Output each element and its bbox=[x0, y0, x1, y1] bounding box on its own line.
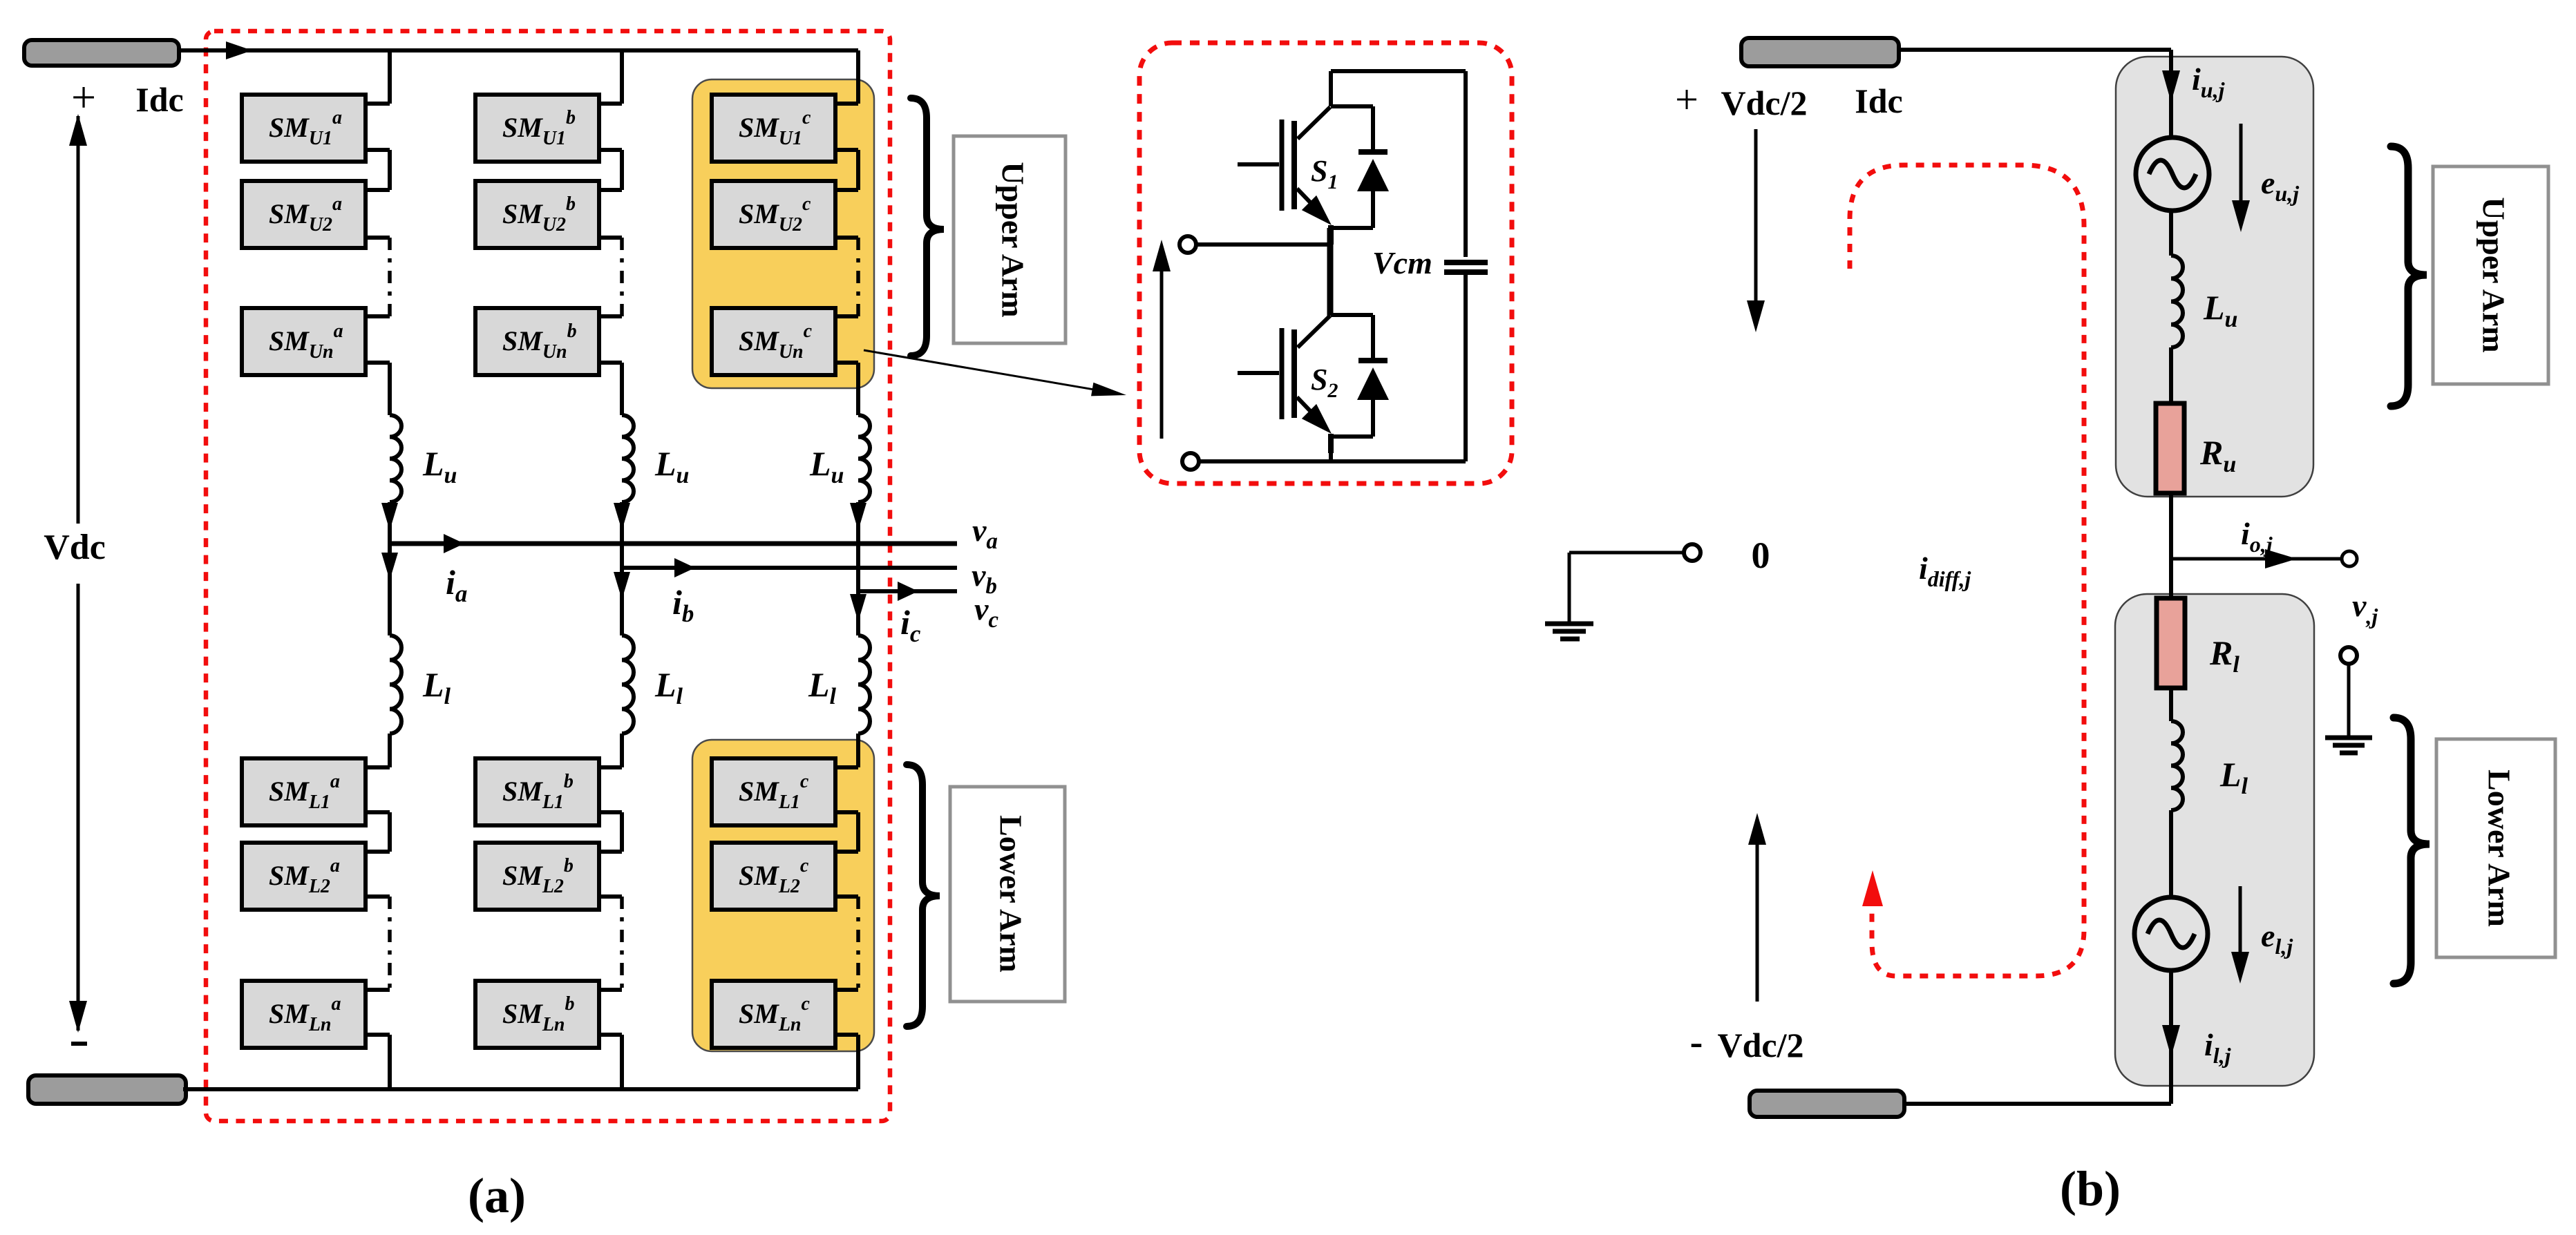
submodule SM_L1^a bbox=[242, 758, 366, 825]
i_u,j label bbox=[2192, 61, 2225, 102]
e_u,j arrow bbox=[2232, 124, 2250, 232]
phase c wire below AC node bbox=[850, 591, 866, 635]
inductor L_u phase a bbox=[390, 415, 401, 502]
submodule SM_U2^c bbox=[712, 181, 835, 248]
capacitor Vcm bbox=[1444, 71, 1488, 461]
svg-text:idiff,j: idiff,j bbox=[1919, 551, 1971, 591]
inductor L_l phase b bbox=[622, 635, 634, 734]
Vdc/2 up arrow bbox=[1748, 813, 1766, 1002]
submodule SM_U1^c bbox=[712, 95, 835, 162]
svg-text:Upper Arm: Upper Arm bbox=[2476, 197, 2511, 352]
e_l,j arrow bbox=[2231, 886, 2249, 984]
svg-text:Lower Arm: Lower Arm bbox=[993, 815, 1028, 973]
R_l label bbox=[2209, 633, 2239, 678]
svg-text:Lu: Lu bbox=[654, 444, 689, 488]
svg-text:Idc: Idc bbox=[135, 80, 183, 119]
Lower Arm label box (b) bbox=[2436, 739, 2555, 957]
svg-text:io,j: io,j bbox=[2241, 516, 2273, 557]
i_u,j arrow bbox=[2162, 70, 2180, 102]
inductor L_u phase b bbox=[622, 415, 634, 502]
submodule SM_Un^a bbox=[242, 308, 366, 375]
negative DC terminal bar (b) bbox=[1750, 1091, 1904, 1117]
phase a lower arm series wiring bbox=[366, 734, 390, 1089]
wire AC to L_u bbox=[2169, 211, 2173, 256]
submodule SM_Ln^c bbox=[712, 981, 835, 1048]
red dashed boundary of submodule detail inset bbox=[1139, 43, 1512, 484]
bottom wire (b) bbox=[1904, 1102, 2171, 1106]
ground node 0 bbox=[1545, 544, 1701, 639]
svg-text:S1: S1 bbox=[1311, 154, 1338, 193]
wire L_u to R_u bbox=[2169, 347, 2173, 403]
i_c label bbox=[900, 603, 921, 647]
plus sign label bbox=[71, 73, 96, 122]
i_diff,j circulating current loop (red dashed) bbox=[1850, 165, 2084, 976]
svg-text:Vdc/2: Vdc/2 bbox=[1718, 1026, 1804, 1064]
L_l label phase b bbox=[654, 665, 683, 709]
wire R_u to output node bbox=[2169, 493, 2173, 598]
bottom DC bus wire bbox=[183, 1087, 858, 1091]
plus Vdc/2 label bbox=[1675, 77, 1807, 122]
Vdc double arrow bbox=[69, 114, 87, 1033]
inductor L_l phase c bbox=[858, 635, 870, 734]
caption (b) bbox=[2060, 1161, 2121, 1216]
inset top wire bbox=[1331, 69, 1466, 73]
mid node wire between S1 and S2 bbox=[1327, 228, 1334, 316]
negative DC terminal bar bbox=[28, 1075, 186, 1104]
svg-text:ib: ib bbox=[672, 583, 694, 627]
top wire (b) bbox=[1899, 50, 2171, 137]
top DC bus wire bbox=[179, 41, 858, 59]
submodule SM_L2^b bbox=[475, 843, 599, 910]
upper arm brace phase c bbox=[911, 98, 944, 356]
svg-text:+: + bbox=[71, 73, 96, 122]
i_a label bbox=[446, 563, 467, 607]
0 label bbox=[1752, 535, 1770, 576]
phase b upper arm series wiring bbox=[599, 48, 622, 415]
svg-text:Vcm: Vcm bbox=[1372, 245, 1432, 280]
L_l label phase a bbox=[422, 665, 451, 709]
L_u label (b) bbox=[2203, 288, 2237, 332]
inductor L_l phase a bbox=[390, 635, 401, 734]
AC source e_l lower bbox=[2134, 897, 2208, 970]
inset reference arrow up bbox=[1153, 240, 1171, 439]
svg-text:Lu: Lu bbox=[422, 444, 457, 488]
Idc label bbox=[135, 80, 183, 119]
minus sign label bbox=[71, 1042, 87, 1046]
positive DC terminal bar bbox=[24, 40, 179, 66]
v_c label bbox=[974, 591, 998, 633]
S1 label bbox=[1311, 154, 1338, 193]
red dashed boundary box of three-phase MMC (a) bbox=[206, 31, 890, 1121]
L_u label phase b bbox=[654, 444, 689, 488]
phase a wire into AC node bbox=[381, 502, 398, 544]
phase a upper arm series wiring bbox=[366, 48, 390, 415]
submodule SM_U2^a bbox=[242, 181, 366, 248]
phase c wire into AC node bbox=[850, 502, 866, 591]
submodule SM_Ln^a bbox=[242, 981, 366, 1048]
svg-text:ia: ia bbox=[446, 563, 467, 607]
i_b label bbox=[672, 583, 694, 627]
Upper Arm label box (a) bbox=[954, 136, 1066, 343]
svg-text:Vdc/2: Vdc/2 bbox=[1721, 84, 1808, 122]
S2 label bbox=[1311, 363, 1338, 402]
submodule SM_L1^b bbox=[475, 758, 599, 825]
svg-text:(b): (b) bbox=[2060, 1161, 2121, 1216]
svg-text:Lower Arm: Lower Arm bbox=[2481, 769, 2517, 927]
submodule SM_Un^c bbox=[712, 308, 835, 375]
Vdc label bbox=[44, 528, 106, 567]
v_a label bbox=[972, 513, 998, 554]
submodule SM_Un^b bbox=[475, 308, 599, 375]
phase c output line v_c bbox=[858, 582, 957, 601]
output line i_o,j bbox=[2171, 549, 2357, 568]
phase b output line v_b bbox=[622, 558, 957, 577]
submodule SM_U2^b bbox=[475, 181, 599, 248]
svg-text:Idc: Idc bbox=[1855, 82, 1902, 120]
svg-text:Lu: Lu bbox=[809, 444, 844, 488]
wire L_l to AC source bbox=[2169, 810, 2173, 897]
L_l label phase c bbox=[808, 665, 837, 709]
svg-text:-: - bbox=[1690, 1021, 1703, 1064]
L_u label phase c bbox=[809, 444, 844, 488]
i_diff,j label bbox=[1919, 551, 1971, 591]
L_u label phase a bbox=[422, 444, 457, 488]
L_l label (b) bbox=[2219, 755, 2248, 799]
phase a wire below AC node bbox=[381, 544, 398, 635]
lower arm brace (b) bbox=[2394, 718, 2430, 984]
svg-text:Ll: Ll bbox=[808, 665, 837, 709]
phase b lower arm series wiring bbox=[599, 734, 622, 1089]
wire AC to bottom (b) bbox=[2162, 970, 2180, 1104]
caption (a) bbox=[468, 1168, 526, 1223]
Vdc/2 down arrow bbox=[1747, 129, 1765, 332]
Idc label (b) bbox=[1855, 82, 1902, 120]
R_u label bbox=[2199, 433, 2236, 477]
submodule SM_L1^c bbox=[712, 758, 835, 825]
submodule SM_U1^b bbox=[475, 95, 599, 162]
resistor R_l bbox=[2157, 598, 2185, 688]
lower arm equivalent box (b) bbox=[2115, 594, 2314, 1086]
v,j label bbox=[2352, 588, 2378, 629]
inset mid terminal bbox=[1180, 236, 1330, 253]
svg-text:v,j: v,j bbox=[2352, 588, 2378, 629]
positive DC terminal bar (b) bbox=[1741, 38, 1899, 66]
inductor L_u (b) bbox=[2171, 256, 2183, 347]
svg-text:Vdc: Vdc bbox=[44, 528, 106, 567]
submodule SM_L2^a bbox=[242, 843, 366, 910]
phase b wire into AC node bbox=[614, 502, 630, 568]
e_u,j label bbox=[2261, 165, 2299, 206]
phase c upper arm series wiring bbox=[835, 50, 858, 415]
submodule SM_L2^c bbox=[712, 843, 835, 910]
inductor L_l (b) bbox=[2171, 721, 2183, 810]
inductor L_u phase c bbox=[858, 415, 870, 502]
yellow highlight around phase-c lower arm submodules bbox=[692, 740, 874, 1051]
IGBT S2 with antiparallel diode bbox=[1238, 280, 1389, 453]
svg-text:va: va bbox=[972, 513, 998, 554]
lower arm brace phase c bbox=[907, 765, 940, 1026]
i_l,j label bbox=[2204, 1027, 2231, 1068]
resistor R_u bbox=[2156, 403, 2184, 493]
IGBT S1 with antiparallel diode bbox=[1238, 71, 1389, 245]
svg-text:+: + bbox=[1675, 77, 1698, 122]
yellow highlight around phase-c upper arm submodules bbox=[692, 79, 874, 388]
Upper Arm label box (b) bbox=[2433, 166, 2548, 384]
wire R_l to L_l bbox=[2169, 688, 2173, 721]
minus Vdc/2 label bbox=[1690, 1021, 1804, 1064]
svg-text:S2: S2 bbox=[1311, 363, 1338, 402]
svg-text:0: 0 bbox=[1752, 535, 1770, 576]
upper arm equivalent box (b) bbox=[2116, 57, 2313, 497]
pointer arrow from SM_Un^c to submodule detail inset bbox=[864, 350, 1126, 396]
phase a output line v_a bbox=[390, 534, 957, 553]
upper arm brace (b) bbox=[2391, 146, 2427, 406]
inset bottom terminal bbox=[1182, 453, 1466, 470]
svg-text:Upper Arm: Upper Arm bbox=[995, 162, 1030, 317]
svg-text:Ll: Ll bbox=[654, 665, 683, 709]
i_o,j label bbox=[2241, 516, 2273, 557]
svg-text:(a): (a) bbox=[468, 1168, 526, 1223]
v_b label bbox=[972, 557, 997, 599]
phase b wire below AC node bbox=[614, 568, 630, 635]
S2 emitter to bottom wire bbox=[1329, 437, 1333, 461]
svg-text:ic: ic bbox=[900, 603, 921, 647]
submodule SM_Ln^b bbox=[475, 981, 599, 1048]
AC source e_u upper bbox=[2136, 137, 2209, 211]
Lower Arm label box (a) bbox=[950, 787, 1065, 1002]
e_l,j label bbox=[2261, 918, 2293, 959]
submodule SM_U1^a bbox=[242, 95, 366, 162]
svg-text:Ll: Ll bbox=[422, 665, 451, 709]
phase c lower arm series wiring bbox=[835, 734, 858, 1089]
v,j terminal and ground bbox=[2325, 647, 2372, 753]
Vcm label bbox=[1372, 245, 1432, 280]
